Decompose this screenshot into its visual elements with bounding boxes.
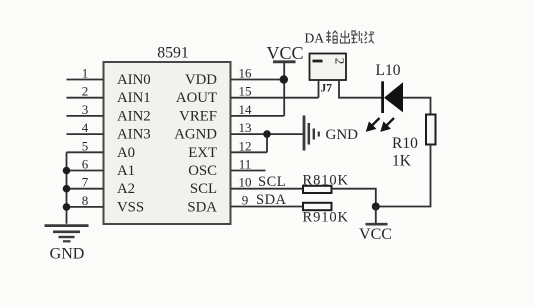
svg-text:SDA: SDA	[256, 192, 287, 208]
svg-text:EXT: EXT	[188, 145, 217, 161]
svg-text:A0: A0	[117, 145, 135, 161]
ground symbol GND (left)	[45, 226, 89, 242]
svg-text:R810K: R810K	[303, 173, 349, 189]
svg-text:1K: 1K	[392, 153, 412, 170]
svg-text:L10: L10	[376, 62, 401, 79]
svg-text:AIN0: AIN0	[117, 72, 151, 88]
pin 7 wire A2	[67, 188, 104, 190]
svg-text:AIN1: AIN1	[117, 90, 151, 106]
wire J7 pin1 to AOUT	[318, 80, 320, 98]
pin 2 wire AIN1	[67, 97, 104, 99]
resistor R9 body	[303, 203, 332, 210]
glyph 出	[340, 31, 349, 44]
wire pin12 to pin13 riser	[266, 134, 268, 152]
svg-text:VCC: VCC	[266, 43, 303, 63]
power symbol VCC (bottom)	[366, 207, 388, 225]
svg-text:VCC: VCC	[359, 226, 392, 243]
svg-text:1: 1	[82, 66, 89, 81]
pin 10 wire SCL	[231, 188, 303, 190]
svg-text:2: 2	[333, 58, 348, 65]
svg-text:9: 9	[242, 193, 249, 208]
svg-text:GND: GND	[50, 246, 85, 263]
wire R8 to VCC junction	[332, 189, 376, 207]
svg-text:VDD: VDD	[185, 72, 217, 88]
IC U1 8591 body	[104, 62, 231, 224]
LED light arrow 2	[381, 118, 394, 131]
svg-text:2: 2	[82, 84, 89, 99]
svg-text:AGND: AGND	[174, 127, 217, 143]
junction pin8/bus	[63, 203, 71, 211]
svg-text:5: 5	[82, 138, 89, 153]
LED L10 cathode bar	[381, 81, 384, 113]
resistor R10 body	[426, 115, 436, 145]
pin 11 wire OSC stub	[231, 170, 266, 172]
svg-text:AIN3: AIN3	[117, 127, 151, 143]
pin 4 wire AIN3	[67, 133, 104, 135]
LED light arrow 1	[367, 118, 380, 131]
glyph 线	[365, 31, 374, 43]
ground bus wire (pins 5-8)	[66, 152, 68, 224]
pin 8 wire VSS	[67, 206, 104, 208]
pin 12 wire EXT	[231, 151, 267, 153]
wire J7 pin2 to LED	[339, 80, 382, 98]
resistor R8 body	[303, 186, 332, 193]
svg-text:SCL: SCL	[190, 181, 217, 197]
svg-text:13: 13	[239, 120, 252, 135]
pin 15 wire AOUT	[231, 97, 319, 99]
wire LED anode to R10	[403, 98, 431, 115]
pin 16 wire VDD	[231, 79, 284, 81]
pin 13 wire AGND	[231, 133, 304, 135]
svg-text:A1: A1	[117, 163, 135, 179]
LED L10 triangle	[384, 82, 403, 112]
svg-text:11: 11	[239, 157, 252, 172]
svg-text:AIN2: AIN2	[117, 108, 151, 124]
svg-text:SCL: SCL	[258, 174, 286, 190]
pin 1 wire AIN0	[67, 79, 104, 81]
svg-text:GND: GND	[326, 127, 359, 143]
svg-text:DA: DA	[305, 31, 325, 46]
power symbol VCC (top)	[273, 62, 296, 116]
pin 3 wire AIN2	[67, 115, 104, 117]
pin 6 wire A1	[67, 170, 104, 172]
svg-text:6: 6	[82, 157, 89, 172]
glyph 输	[326, 31, 337, 44]
junction pin7/bus	[63, 185, 71, 193]
svg-text:R10: R10	[392, 135, 418, 152]
svg-text:J7: J7	[321, 83, 333, 95]
svg-text:3: 3	[82, 102, 89, 117]
wire R10 to VCC junction	[376, 145, 431, 207]
pin 14 wire VREF	[231, 115, 284, 117]
svg-text:14: 14	[239, 102, 253, 117]
svg-text:R910K: R910K	[303, 210, 349, 226]
svg-text:8591: 8591	[157, 45, 189, 62]
svg-text:AOUT: AOUT	[176, 90, 217, 106]
svg-text:15: 15	[239, 84, 252, 99]
svg-text:4: 4	[82, 120, 89, 135]
svg-text:10: 10	[239, 175, 252, 190]
ground symbol GND (right, for AGND/EXT)	[304, 116, 319, 151]
connector J7 body	[310, 54, 347, 81]
svg-text:VSS: VSS	[117, 199, 144, 215]
glyph 跳	[352, 31, 363, 43]
svg-text:VREF: VREF	[179, 108, 217, 124]
junction pin13/pin12	[263, 130, 271, 138]
connector J7 pin 1 mark	[313, 60, 323, 63]
junction pullups/VCC	[372, 203, 380, 211]
svg-text:16: 16	[239, 66, 253, 81]
svg-text:SDA: SDA	[187, 199, 217, 215]
svg-text:7: 7	[82, 175, 89, 190]
svg-text:A2: A2	[117, 181, 135, 197]
svg-text:OSC: OSC	[188, 163, 217, 179]
svg-text:12: 12	[239, 138, 252, 153]
junction pin6/bus	[63, 167, 71, 175]
pin 5 wire A0	[67, 151, 104, 153]
junction VDD/VCC	[280, 75, 288, 83]
svg-text:8: 8	[82, 193, 89, 208]
pin 9 wire SDA	[231, 206, 303, 208]
